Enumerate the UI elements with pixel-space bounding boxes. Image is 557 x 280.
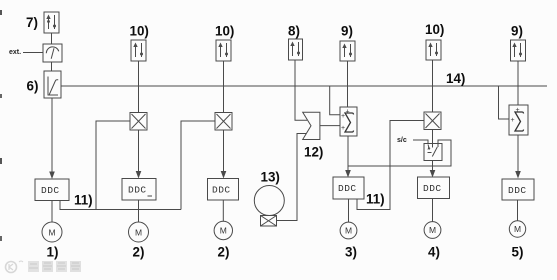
wire 9a down to sigma1	[347, 61, 349, 107]
svg-text:M: M	[135, 228, 142, 238]
wire sc loop tap	[348, 140, 451, 166]
wire gauge-to-ramp	[51, 62, 53, 71]
svg-text:1): 1)	[47, 245, 59, 260]
svg-text:+: +	[515, 107, 519, 114]
svg-text:9): 9)	[511, 24, 523, 39]
wire 9b down to sigma2	[517, 61, 519, 105]
valve 13 actuator circle	[254, 186, 284, 216]
setpoint box 10 first	[131, 40, 146, 61]
wire DDC6-to-M6	[517, 200, 519, 221]
svg-text:+: +	[341, 113, 345, 120]
svg-text:8): 8)	[288, 24, 300, 39]
svg-text:M: M	[49, 228, 56, 238]
svg-text:9): 9)	[341, 24, 353, 39]
controller DDC6	[502, 179, 534, 200]
multiplier X3	[424, 112, 441, 130]
svg-text:ext.: ext.	[9, 49, 21, 56]
setpoint box 10 second	[216, 40, 231, 61]
wire DDC4-to-M4	[348, 199, 350, 222]
svg-text:14): 14)	[446, 71, 465, 86]
wire mux output to sigma1	[320, 125, 340, 127]
svg-text:6): 6)	[27, 79, 39, 94]
wire 8 down to mux input1	[295, 60, 307, 120]
mux selector 12	[303, 112, 320, 139]
svg-text:DDC: DDC	[423, 183, 442, 194]
controller DDC5	[418, 177, 450, 199]
summer sigma2	[509, 105, 528, 135]
controller DDC1	[35, 179, 69, 201]
wire sc command line	[413, 140, 428, 144]
potentiometer gauge box	[43, 44, 62, 62]
svg-text:DDC: DDC	[338, 183, 357, 194]
svg-text:DDC: DDC	[41, 185, 60, 196]
wire bus tap to sigma2 input	[499, 86, 510, 119]
motor M5	[424, 222, 441, 239]
svg-text:5): 5)	[512, 245, 524, 260]
svg-text:M: M	[429, 225, 436, 235]
svg-text:M: M	[345, 226, 352, 236]
svg-text:12): 12)	[304, 145, 323, 160]
wire feedback loop 11 left	[60, 201, 181, 210]
multiplier X2	[215, 113, 232, 131]
wire bus tap to sigma1 upper input	[330, 86, 340, 115]
motor M3	[214, 221, 232, 239]
wire 10a down to X1	[138, 61, 140, 113]
controller DDC3	[208, 179, 239, 201]
svg-text:10): 10)	[425, 22, 444, 37]
svg-text:DDC: DDC	[508, 185, 527, 196]
wire 10c down to X3	[432, 60, 434, 112]
watermark	[6, 261, 82, 273]
svg-text:10): 10)	[215, 24, 234, 39]
svg-text:+: +	[510, 117, 514, 124]
svg-text:11): 11)	[74, 193, 93, 208]
svg-text:3): 3)	[345, 245, 357, 260]
svg-text:DDC: DDC	[128, 185, 147, 196]
wire DDC5-to-M5	[432, 199, 434, 222]
ramp generator box 6	[44, 71, 61, 98]
setpoint box 9 first	[340, 41, 355, 61]
svg-text:M: M	[514, 224, 521, 234]
svg-text:4): 4)	[428, 245, 440, 260]
svg-text:+: +	[341, 125, 345, 132]
svg-text:DDC: DDC	[212, 185, 231, 196]
svg-text:7): 7)	[26, 15, 38, 30]
setpoint box 10 third	[426, 40, 441, 60]
switch box s/c	[424, 144, 442, 161]
summer sigma1	[340, 107, 357, 136]
multiplier X1	[130, 113, 147, 131]
motor M6	[509, 221, 525, 237]
svg-text:2): 2)	[218, 245, 230, 260]
svg-text:s/c: s/c	[397, 137, 407, 144]
valve 13 body	[261, 216, 277, 227]
wire DDC2-to-M2	[138, 200, 140, 222]
svg-text:11): 11)	[366, 192, 385, 207]
edge smudge marks	[0, 10, 2, 15]
wire feedback loop 11 right	[357, 121, 424, 210]
wire main setpoint bus 14	[61, 85, 547, 87]
setpoint box 8	[289, 39, 303, 60]
controller DDC4	[333, 177, 364, 199]
wire ext input	[23, 52, 43, 54]
wire sigma2-to-DDC6	[517, 135, 519, 171]
wire 10b down to X2	[223, 61, 225, 113]
setpoint box 7 (slider icon)	[44, 12, 59, 33]
motor M2	[129, 222, 149, 242]
motor M1	[42, 222, 62, 242]
svg-text:2): 2)	[133, 245, 145, 260]
svg-text:+: +	[345, 109, 349, 116]
controller DDC2	[122, 179, 156, 201]
setpoint box 9 second	[511, 40, 526, 61]
svg-text:10): 10)	[130, 24, 149, 39]
wire X2-to-DDC3	[223, 130, 225, 171]
wire X3 to switch	[432, 130, 434, 144]
wire sigma1-to-DDC4	[347, 136, 349, 171]
wire switch-to-DDC5	[432, 161, 434, 171]
wire DDC3-to-M3	[222, 200, 224, 221]
wire valve-to-mux input2	[277, 134, 307, 221]
wire ramp-to-DDC1	[51, 98, 53, 172]
svg-text:M: M	[220, 226, 227, 236]
motor M4	[340, 222, 357, 239]
wire 7-to-gauge	[51, 33, 53, 44]
wire DDC1-to-M1	[51, 201, 53, 223]
svg-text:13): 13)	[261, 170, 280, 185]
wire X1-to-DDC2	[138, 130, 140, 171]
